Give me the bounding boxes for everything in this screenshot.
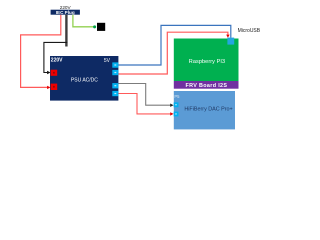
block PSU AC/DC	[50, 56, 118, 101]
ground lug black square	[97, 23, 105, 31]
svg-text:Raspberry PI3: Raspberry PI3	[189, 59, 225, 65]
arrowhead red down into MicroUSB	[226, 35, 229, 38]
PSU input connector 1 (red)	[51, 70, 58, 76]
PSU output connector 3 (cyan)	[112, 83, 118, 88]
svg-text:IEC Plug: IEC Plug	[56, 10, 75, 15]
arrowhead red into PSU left connector 2	[47, 86, 50, 89]
arrowhead red into P5 connector 2	[170, 112, 173, 115]
arrowhead black into P5 connector 1	[170, 104, 173, 107]
PSU output connector 4 (cyan)	[112, 91, 118, 96]
block HiFiBerry DAC Pro+ (light blue)	[174, 91, 235, 129]
arrow dot green	[93, 25, 96, 28]
block FRV Board I2S (purple bar)	[174, 81, 239, 89]
wire black: IEC Plug to PSU 220V input (neutral)	[44, 42, 68, 72]
arrowhead black into PSU left connector 1	[47, 71, 50, 74]
svg-text:220V: 220V	[51, 57, 63, 63]
PSU output connector 2 (cyan)	[112, 70, 118, 75]
block Raspberry PI3 (green)	[174, 39, 239, 82]
P5 connector 2 (cyan)	[174, 112, 179, 117]
wire red: IEC Plug to PSU 220V input (live)	[21, 15, 61, 88]
wire red: PSU 5V to MicroUSB	[119, 32, 228, 74]
wire red: PSU 5V to HiFiBerry P5	[119, 94, 171, 114]
svg-text:MicroUSB: MicroUSB	[238, 28, 261, 34]
svg-text:HiFiBerry DAC Pro+: HiFiBerry DAC Pro+	[184, 107, 232, 113]
MicroUSB connector (cyan) on Raspberry Pi	[227, 38, 234, 45]
svg-text:5V: 5V	[104, 58, 111, 64]
svg-text:P5: P5	[174, 94, 180, 99]
P5 connector 1 (cyan)	[174, 102, 179, 107]
wire blue: PSU 5V to MicroUSB	[119, 25, 231, 65]
wire green: IEC Plug earth to ground lug	[73, 15, 94, 27]
block IEC Plug	[51, 10, 80, 15]
PSU input connector 2 (red)	[51, 84, 58, 90]
PSU output connector 1 (cyan)	[112, 62, 118, 67]
wire gray thick: IEC Plug stub down	[65, 15, 67, 47]
svg-text:PSU AC/DC: PSU AC/DC	[71, 77, 98, 83]
wire gray: PSU 5V to HiFiBerry P5	[119, 84, 171, 106]
svg-text:FRV Board I2S: FRV Board I2S	[185, 83, 227, 89]
